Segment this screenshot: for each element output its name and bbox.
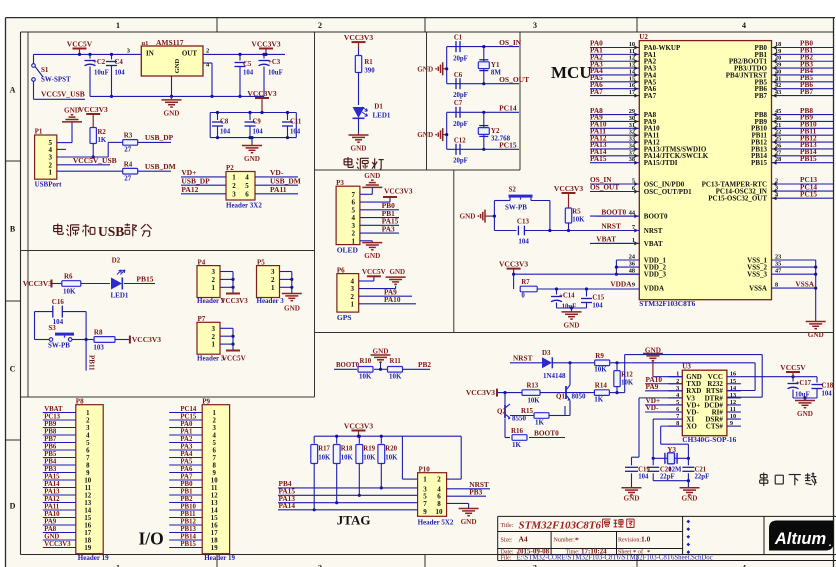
svg-text:20pF: 20pF bbox=[453, 158, 468, 165]
svg-text:PC15-OSC32_OUT: PC15-OSC32_OUT bbox=[708, 195, 767, 203]
svg-text:VCC3V3: VCC3V3 bbox=[247, 89, 276, 98]
svg-text:C: C bbox=[10, 365, 16, 374]
svg-text:10uF: 10uF bbox=[94, 70, 109, 77]
svg-text:U2: U2 bbox=[639, 33, 648, 41]
svg-text:PA11: PA11 bbox=[270, 185, 287, 194]
svg-text:1: 1 bbox=[423, 476, 427, 484]
svg-text:GND: GND bbox=[364, 252, 380, 260]
svg-text:VCC5V: VCC5V bbox=[362, 268, 386, 276]
svg-text:P5: P5 bbox=[257, 258, 265, 266]
svg-text:Q2: Q2 bbox=[497, 408, 506, 416]
svg-text:2: 2 bbox=[212, 276, 216, 284]
svg-text:R9: R9 bbox=[595, 352, 604, 360]
svg-text:PC15: PC15 bbox=[800, 189, 817, 198]
svg-text:NRST: NRST bbox=[644, 227, 663, 235]
svg-text:10uF: 10uF bbox=[562, 304, 577, 311]
svg-text:P2: P2 bbox=[226, 164, 234, 172]
svg-text:VBAT: VBAT bbox=[596, 235, 616, 244]
svg-text:GND: GND bbox=[373, 347, 389, 355]
svg-text:3: 3 bbox=[533, 564, 537, 567]
svg-text:Header 3X2: Header 3X2 bbox=[226, 202, 262, 210]
svg-text:R18: R18 bbox=[341, 446, 353, 453]
svg-text:PC14: PC14 bbox=[499, 104, 517, 113]
svg-text:10K: 10K bbox=[572, 217, 585, 224]
svg-text:R15: R15 bbox=[521, 407, 534, 415]
svg-text:VCC3V3: VCC3V3 bbox=[384, 187, 413, 196]
svg-text:11: 11 bbox=[211, 485, 218, 492]
svg-text:GND: GND bbox=[351, 145, 367, 153]
svg-text:Header 3: Header 3 bbox=[257, 297, 285, 305]
svg-text:PA12: PA12 bbox=[44, 496, 60, 503]
svg-text:VCC3V3: VCC3V3 bbox=[221, 297, 249, 305]
svg-text:C6: C6 bbox=[454, 72, 463, 79]
svg-text:6: 6 bbox=[245, 190, 249, 198]
svg-text:BOOT0: BOOT0 bbox=[534, 429, 559, 438]
svg-text:9: 9 bbox=[86, 470, 90, 477]
svg-text:R20: R20 bbox=[385, 446, 397, 453]
svg-text:PB5: PB5 bbox=[44, 451, 57, 458]
svg-text:10K: 10K bbox=[363, 455, 376, 462]
svg-text:PA15: PA15 bbox=[44, 473, 60, 480]
svg-text:10: 10 bbox=[211, 477, 218, 484]
svg-text:3: 3 bbox=[232, 190, 236, 198]
svg-text:1: 1 bbox=[271, 284, 275, 292]
svg-text:4: 4 bbox=[742, 21, 746, 30]
svg-text:OUT: OUT bbox=[182, 50, 198, 58]
svg-text:C8: C8 bbox=[220, 119, 229, 126]
svg-text:+C2: +C2 bbox=[93, 59, 106, 66]
svg-text:104: 104 bbox=[290, 129, 301, 136]
svg-text:P7: P7 bbox=[198, 315, 206, 323]
svg-text:PB15: PB15 bbox=[180, 541, 196, 548]
svg-text:R16: R16 bbox=[511, 427, 524, 435]
svg-text:PA5: PA5 bbox=[180, 458, 193, 465]
svg-text:4: 4 bbox=[86, 432, 90, 439]
svg-text:LED1: LED1 bbox=[111, 292, 129, 300]
svg-text:BOOT0: BOOT0 bbox=[336, 362, 360, 369]
svg-text:PA15: PA15 bbox=[590, 154, 607, 163]
svg-text:PA9: PA9 bbox=[646, 382, 659, 391]
svg-text:USB_DM: USB_DM bbox=[145, 162, 176, 171]
svg-text:OSC_OUT/PD1: OSC_OUT/PD1 bbox=[644, 188, 692, 196]
svg-text:U3: U3 bbox=[682, 363, 691, 371]
svg-text:C4: C4 bbox=[115, 59, 124, 66]
svg-text:PB14: PB14 bbox=[180, 533, 196, 540]
svg-text:3: 3 bbox=[212, 325, 216, 333]
svg-text:27: 27 bbox=[124, 174, 132, 182]
svg-text:GND: GND bbox=[564, 321, 580, 329]
svg-text:D1: D1 bbox=[374, 103, 383, 111]
svg-text:19: 19 bbox=[84, 545, 91, 552]
svg-text:NRST: NRST bbox=[513, 353, 533, 362]
svg-text:2: 2 bbox=[86, 417, 90, 424]
svg-text:VBAT: VBAT bbox=[44, 406, 63, 413]
svg-text:C19: C19 bbox=[638, 467, 650, 474]
svg-text:PB9: PB9 bbox=[44, 421, 57, 428]
svg-text:P8: P8 bbox=[76, 397, 84, 405]
svg-text:Y3: Y3 bbox=[667, 446, 676, 454]
svg-text:VCC5V: VCC5V bbox=[67, 39, 93, 48]
svg-text:CTS#: CTS# bbox=[706, 423, 724, 431]
svg-text:PA9: PA9 bbox=[44, 518, 57, 525]
svg-text:C7: C7 bbox=[454, 100, 463, 107]
svg-text:S3: S3 bbox=[48, 324, 56, 332]
svg-text:VDD_3: VDD_3 bbox=[644, 271, 667, 279]
svg-text:VD-: VD- bbox=[646, 403, 660, 412]
svg-text:103: 103 bbox=[93, 344, 104, 352]
svg-text:PA10: PA10 bbox=[44, 511, 60, 518]
svg-text:22pF: 22pF bbox=[660, 474, 675, 481]
svg-text:17: 17 bbox=[84, 530, 91, 537]
svg-text:1: 1 bbox=[212, 341, 216, 349]
svg-text:14: 14 bbox=[211, 507, 218, 514]
svg-text:2: 2 bbox=[206, 48, 209, 55]
svg-text:VCC3V3: VCC3V3 bbox=[44, 541, 71, 548]
svg-text:VDDA: VDDA bbox=[610, 279, 632, 288]
svg-text:1: 1 bbox=[351, 300, 355, 308]
svg-text:PA12: PA12 bbox=[181, 185, 198, 194]
svg-text:3: 3 bbox=[49, 154, 53, 162]
svg-text:*: * bbox=[575, 536, 579, 545]
svg-text:VCC5V_USB: VCC5V_USB bbox=[41, 90, 85, 99]
svg-text:P6: P6 bbox=[337, 266, 345, 274]
svg-text:4: 4 bbox=[742, 564, 746, 567]
svg-text:S1: S1 bbox=[41, 66, 49, 74]
svg-text:PA8: PA8 bbox=[44, 526, 57, 533]
svg-text:22pF: 22pF bbox=[695, 474, 710, 481]
svg-text:PA7: PA7 bbox=[590, 87, 603, 96]
svg-text:3: 3 bbox=[212, 425, 216, 432]
svg-text:10K: 10K bbox=[389, 372, 402, 380]
svg-text:PB11: PB11 bbox=[88, 355, 96, 371]
svg-text:Number:: Number: bbox=[554, 538, 576, 544]
svg-text:VBAT: VBAT bbox=[644, 240, 663, 248]
svg-text:104: 104 bbox=[638, 474, 649, 481]
svg-text:1: 1 bbox=[212, 284, 216, 292]
svg-text:5: 5 bbox=[86, 440, 90, 447]
svg-text:R17: R17 bbox=[318, 446, 330, 453]
svg-text:+C3: +C3 bbox=[268, 59, 281, 66]
svg-text:BOOT0: BOOT0 bbox=[644, 213, 668, 221]
svg-text:PB8: PB8 bbox=[44, 428, 57, 435]
svg-text:10K: 10K bbox=[594, 366, 607, 374]
svg-text:VDDA: VDDA bbox=[644, 285, 664, 293]
svg-text:9: 9 bbox=[632, 282, 635, 289]
svg-text:104: 104 bbox=[253, 129, 264, 136]
svg-text:13: 13 bbox=[84, 500, 91, 507]
svg-text:VCC3V3: VCC3V3 bbox=[466, 388, 495, 397]
svg-text:C21: C21 bbox=[695, 467, 707, 474]
svg-text:18: 18 bbox=[211, 537, 218, 544]
svg-text:Header 19: Header 19 bbox=[78, 554, 109, 562]
svg-text:GND: GND bbox=[417, 131, 433, 139]
svg-text:PC15: PC15 bbox=[499, 141, 517, 150]
svg-text:D: D bbox=[10, 502, 16, 511]
svg-text:C9: C9 bbox=[253, 119, 262, 126]
svg-text:C11: C11 bbox=[290, 119, 302, 126]
svg-text:7: 7 bbox=[86, 455, 90, 462]
svg-text:Header 3: Header 3 bbox=[197, 355, 225, 363]
svg-text:8050: 8050 bbox=[572, 393, 587, 401]
svg-text:12: 12 bbox=[84, 492, 91, 499]
svg-text:Date:: Date: bbox=[501, 549, 514, 555]
svg-text:R4: R4 bbox=[124, 160, 133, 168]
svg-text:Title:: Title: bbox=[501, 523, 514, 529]
svg-text:C12: C12 bbox=[454, 138, 466, 145]
svg-text:VCC3V3: VCC3V3 bbox=[554, 184, 583, 193]
svg-text:12M: 12M bbox=[668, 467, 682, 474]
svg-text:3: 3 bbox=[212, 268, 216, 276]
svg-text:0: 0 bbox=[521, 293, 525, 300]
svg-text:PB1: PB1 bbox=[180, 488, 193, 495]
svg-text:104: 104 bbox=[592, 303, 603, 310]
svg-text:VCC3V3: VCC3V3 bbox=[499, 259, 528, 268]
svg-text:104: 104 bbox=[220, 129, 231, 136]
svg-text:104: 104 bbox=[115, 70, 126, 77]
svg-text:PB11: PB11 bbox=[180, 511, 196, 518]
svg-text:GND: GND bbox=[682, 495, 698, 503]
svg-text:20pF: 20pF bbox=[453, 121, 468, 128]
svg-text:D2: D2 bbox=[112, 257, 121, 265]
svg-text:PA15/JTDI: PA15/JTDI bbox=[644, 159, 678, 167]
svg-text:R7: R7 bbox=[521, 279, 530, 286]
svg-text:10K: 10K bbox=[359, 372, 372, 380]
svg-text:R10: R10 bbox=[360, 358, 372, 365]
svg-text:5: 5 bbox=[212, 440, 216, 447]
svg-text:C13: C13 bbox=[517, 218, 530, 226]
svg-text:PA3: PA3 bbox=[382, 224, 395, 233]
svg-text:SW-PB: SW-PB bbox=[505, 204, 527, 212]
svg-text:PB15: PB15 bbox=[800, 154, 817, 163]
svg-text:OLED: OLED bbox=[337, 246, 359, 255]
svg-text:3: 3 bbox=[86, 425, 90, 432]
svg-text:R14: R14 bbox=[595, 382, 608, 390]
svg-text:VCC3V3: VCC3V3 bbox=[344, 33, 373, 42]
svg-text:R11: R11 bbox=[390, 358, 402, 365]
svg-text:STM32F103C8T6: STM32F103C8T6 bbox=[519, 519, 602, 531]
svg-text:16: 16 bbox=[211, 522, 218, 529]
svg-text:GND: GND bbox=[624, 495, 640, 503]
svg-text:PB2: PB2 bbox=[180, 496, 193, 503]
svg-text:GND: GND bbox=[64, 106, 80, 114]
svg-text:AMS117: AMS117 bbox=[156, 38, 184, 47]
svg-text:GND: GND bbox=[417, 65, 433, 73]
svg-text:C16: C16 bbox=[52, 298, 65, 306]
svg-text:1: 1 bbox=[116, 21, 120, 30]
svg-text:VCC5V: VCC5V bbox=[222, 355, 246, 363]
svg-text:PA14: PA14 bbox=[44, 481, 60, 488]
svg-text:1K: 1K bbox=[512, 441, 522, 449]
svg-text:2: 2 bbox=[318, 21, 322, 30]
svg-text:VCC3V3: VCC3V3 bbox=[344, 421, 373, 430]
svg-text:PB10: PB10 bbox=[180, 503, 196, 510]
svg-text:GND: GND bbox=[390, 268, 406, 276]
svg-text:19: 19 bbox=[211, 545, 218, 552]
svg-text:OS_OUT: OS_OUT bbox=[499, 75, 529, 84]
svg-text:PB3: PB3 bbox=[469, 487, 482, 496]
svg-text:PB15: PB15 bbox=[136, 275, 153, 284]
svg-text:8: 8 bbox=[86, 462, 90, 469]
svg-text:1K: 1K bbox=[535, 419, 545, 427]
svg-text:3: 3 bbox=[533, 21, 537, 30]
svg-text:11: 11 bbox=[85, 485, 92, 492]
svg-text:File:: File: bbox=[501, 556, 512, 562]
svg-text:P3: P3 bbox=[336, 179, 344, 187]
svg-text:1: 1 bbox=[212, 410, 216, 417]
svg-text:GND: GND bbox=[164, 109, 180, 117]
svg-text:10: 10 bbox=[436, 508, 444, 516]
svg-text:USB: USB bbox=[98, 224, 124, 239]
svg-text:38: 38 bbox=[629, 156, 635, 163]
svg-text:GND: GND bbox=[645, 346, 661, 354]
svg-text:15: 15 bbox=[84, 515, 91, 522]
svg-text:4: 4 bbox=[245, 174, 249, 182]
svg-text:VCC3V3: VCC3V3 bbox=[251, 39, 280, 48]
svg-text:10K: 10K bbox=[385, 455, 398, 462]
svg-text:5: 5 bbox=[245, 182, 249, 190]
svg-text:27: 27 bbox=[124, 146, 132, 154]
svg-text:PB4: PB4 bbox=[44, 458, 57, 465]
svg-text:1: 1 bbox=[116, 564, 120, 567]
svg-text:S2: S2 bbox=[509, 186, 517, 194]
svg-text:C18: C18 bbox=[822, 383, 834, 390]
svg-text:PA13: PA13 bbox=[44, 488, 60, 495]
svg-text:PB12: PB12 bbox=[180, 518, 196, 525]
svg-text:12: 12 bbox=[211, 492, 218, 499]
svg-text:R19: R19 bbox=[363, 446, 375, 453]
svg-text:GND: GND bbox=[244, 155, 260, 163]
svg-text:OS_IN: OS_IN bbox=[499, 38, 522, 47]
svg-text:PA1: PA1 bbox=[180, 428, 193, 435]
svg-text:PC14: PC14 bbox=[180, 406, 196, 413]
svg-text:104: 104 bbox=[243, 70, 254, 77]
svg-text:6: 6 bbox=[86, 447, 90, 454]
svg-text:R2: R2 bbox=[98, 129, 107, 136]
svg-text:P10: P10 bbox=[419, 466, 431, 474]
svg-text:JTAG: JTAG bbox=[337, 513, 371, 528]
svg-text:PC15: PC15 bbox=[180, 413, 196, 420]
svg-text:VSS_3: VSS_3 bbox=[747, 271, 767, 279]
svg-text:PA2: PA2 bbox=[180, 436, 193, 443]
svg-text:USBPort: USBPort bbox=[35, 181, 63, 189]
svg-text:PA10: PA10 bbox=[384, 295, 401, 304]
svg-text:GND: GND bbox=[44, 533, 59, 540]
svg-text:Q1: Q1 bbox=[556, 393, 565, 401]
svg-text:2: 2 bbox=[212, 333, 216, 341]
svg-text:1.0: 1.0 bbox=[641, 535, 651, 544]
svg-text:8: 8 bbox=[212, 462, 216, 469]
svg-text:PB0: PB0 bbox=[180, 481, 193, 488]
svg-text:10: 10 bbox=[84, 477, 91, 484]
svg-text:1: 1 bbox=[352, 237, 356, 245]
svg-text:GND: GND bbox=[797, 410, 813, 418]
svg-text:+C14: +C14 bbox=[559, 293, 575, 300]
svg-text:D3: D3 bbox=[542, 349, 551, 357]
svg-text:+C17: +C17 bbox=[796, 380, 812, 387]
svg-text:1N4148: 1N4148 bbox=[543, 372, 566, 380]
svg-text:14: 14 bbox=[84, 507, 91, 514]
svg-text:P1: P1 bbox=[35, 128, 43, 136]
svg-text:VCC3V3: VCC3V3 bbox=[79, 105, 108, 114]
svg-text:GND: GND bbox=[461, 518, 477, 526]
svg-text:B: B bbox=[10, 225, 16, 234]
svg-text:2: 2 bbox=[437, 476, 441, 484]
svg-text:10K: 10K bbox=[528, 398, 541, 405]
svg-text:1: 1 bbox=[232, 174, 236, 182]
svg-text:LED1: LED1 bbox=[373, 112, 391, 120]
svg-text:PA11: PA11 bbox=[44, 503, 60, 510]
svg-text:PC13: PC13 bbox=[44, 413, 60, 420]
svg-text:7: 7 bbox=[423, 500, 427, 508]
svg-text:E:\STM32-CORE\STM32F103-C8T6\S: E:\STM32-CORE\STM32F103-C8T6\STM32F103-C… bbox=[517, 555, 713, 562]
svg-text:13: 13 bbox=[211, 500, 218, 507]
svg-text:7: 7 bbox=[212, 455, 216, 462]
svg-text:6: 6 bbox=[212, 447, 216, 454]
svg-text:17: 17 bbox=[629, 89, 635, 96]
svg-text:u1: u1 bbox=[142, 40, 149, 47]
svg-text:8: 8 bbox=[437, 500, 441, 508]
svg-text:4: 4 bbox=[212, 432, 216, 439]
svg-text:9: 9 bbox=[212, 470, 216, 477]
svg-text:10K: 10K bbox=[63, 288, 76, 296]
svg-text:R12: R12 bbox=[621, 372, 633, 379]
svg-text:2: 2 bbox=[318, 564, 322, 567]
svg-text:PB7: PB7 bbox=[44, 436, 57, 443]
svg-text:P4: P4 bbox=[198, 258, 206, 266]
svg-text:SW-PB: SW-PB bbox=[48, 342, 70, 350]
svg-text:GND: GND bbox=[364, 172, 380, 180]
svg-text:10K: 10K bbox=[621, 380, 634, 387]
svg-text:9: 9 bbox=[423, 508, 427, 516]
svg-text:IN: IN bbox=[146, 50, 154, 58]
svg-text:10uF: 10uF bbox=[268, 70, 283, 77]
svg-text:R5: R5 bbox=[572, 209, 581, 216]
svg-text:10K: 10K bbox=[318, 455, 331, 462]
svg-text:PB7: PB7 bbox=[800, 87, 813, 96]
svg-text:Header 19: Header 19 bbox=[204, 554, 235, 562]
svg-text:PA0: PA0 bbox=[180, 421, 193, 428]
svg-text:PA7: PA7 bbox=[180, 473, 193, 480]
svg-text:GND: GND bbox=[284, 305, 300, 313]
svg-text:PB6: PB6 bbox=[44, 443, 57, 450]
svg-text:C1: C1 bbox=[454, 35, 463, 42]
svg-text:VSSA: VSSA bbox=[795, 279, 814, 288]
svg-text:R6: R6 bbox=[64, 273, 73, 281]
svg-text:15: 15 bbox=[211, 515, 218, 522]
svg-text:Altıum: Altıum bbox=[774, 530, 826, 548]
svg-text:390: 390 bbox=[364, 68, 375, 75]
svg-text:104: 104 bbox=[822, 391, 833, 398]
svg-text:NRST: NRST bbox=[601, 222, 621, 231]
svg-text:PB3: PB3 bbox=[44, 466, 57, 473]
svg-text:PA3: PA3 bbox=[180, 443, 193, 450]
svg-text:17: 17 bbox=[211, 530, 218, 537]
svg-text:P9: P9 bbox=[202, 397, 210, 405]
svg-text:20pF: 20pF bbox=[453, 92, 468, 99]
svg-text:CH340G-SOP-16: CH340G-SOP-16 bbox=[682, 435, 736, 444]
svg-text:USB_DP: USB_DP bbox=[145, 133, 174, 142]
svg-text:.: . bbox=[829, 538, 832, 549]
svg-text:VCC5V_USB: VCC5V_USB bbox=[73, 156, 117, 165]
svg-text:Revision:: Revision: bbox=[618, 538, 641, 544]
svg-text:A: A bbox=[10, 86, 16, 95]
svg-text:Size:: Size: bbox=[501, 538, 513, 544]
svg-text:16: 16 bbox=[84, 522, 91, 529]
svg-text:104: 104 bbox=[518, 238, 529, 246]
svg-text:3: 3 bbox=[271, 268, 275, 276]
svg-text:PA7: PA7 bbox=[644, 92, 657, 100]
svg-text:VCC3V3: VCC3V3 bbox=[23, 279, 52, 288]
